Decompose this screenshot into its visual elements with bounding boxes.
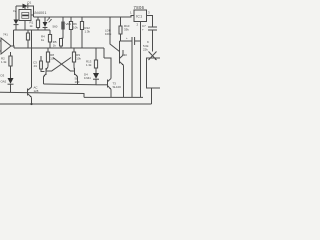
wire D1 to corner: [28, 6, 34, 17]
bottom bus: [0, 103, 152, 105]
wire top-left to D1: [16, 5, 23, 7]
wire left vertical: [15, 6, 17, 20]
svg-text:IC1: IC1: [136, 15, 142, 19]
cap C8: [132, 37, 135, 45]
svg-text:33k: 33k: [124, 28, 129, 32]
svg-text:1N4001: 1N4001: [33, 11, 47, 15]
svg-text:Fe: Fe: [13, 9, 17, 13]
emitter junction: [31, 98, 33, 105]
diode OA2: [8, 78, 14, 84]
node line y30: [14, 29, 51, 31]
cross wire A: [53, 58, 71, 72]
svg-text:SL100: SL100: [113, 85, 122, 89]
svg-text:10k: 10k: [76, 57, 81, 61]
svg-text:D1: D1: [28, 0, 32, 4]
LED D3: [44, 17, 46, 22]
cap C7: [148, 27, 157, 30]
resistor 1.3k: [10, 52, 12, 56]
gnd drop C8: [131, 45, 133, 98]
resistor R6: [70, 17, 72, 22]
svg-text:22k: 22k: [143, 48, 148, 52]
wire op-amp feed: [13, 30, 15, 46]
resistor R9: [73, 48, 75, 52]
wire T2 feed: [120, 41, 121, 57]
relay right pin wire: [31, 14, 34, 16]
transistor Q1: [45, 68, 47, 75]
IC1 gnd pin: [140, 22, 142, 98]
collector T3: [104, 48, 111, 79]
relay bottom wire: [24, 21, 26, 31]
relay RL1 box: [19, 10, 31, 21]
collector wire T1 up: [31, 30, 33, 87]
svg-text:1.3k: 1.3k: [1, 60, 7, 64]
diode D4: [93, 73, 99, 79]
preset VR1: [62, 17, 64, 22]
resistor R2: [37, 17, 39, 20]
svg-text:1k: 1k: [53, 44, 57, 48]
resistor R10: [120, 17, 122, 26]
meter M1 box: [147, 58, 162, 88]
diode D2: [14, 20, 19, 25]
resistor R13: [95, 48, 97, 60]
svg-text:1.3k: 1.3k: [85, 30, 91, 34]
transistor T3: [96, 84, 108, 86]
mid rail: [11, 46, 104, 48]
svg-text:VR1: VR1: [66, 22, 72, 26]
transistor T1: [27, 89, 29, 96]
svg-text:128: 128: [34, 89, 39, 93]
svg-text:10k: 10k: [73, 26, 78, 30]
LDR wire: [110, 17, 120, 52]
svg-text:1N41: 1N41: [84, 76, 91, 80]
svg-text:D3: D3: [1, 74, 5, 78]
resistor R12: [81, 17, 83, 22]
emitter rail mv: [44, 83, 97, 86]
cap C8 wire: [121, 40, 133, 42]
wire D2 down: [15, 25, 17, 30]
svg-text:330: 330: [122, 53, 127, 57]
resistor R1: [27, 30, 29, 33]
cap C3: [40, 56, 42, 61]
top bus: [34, 16, 135, 18]
svg-text:+: +: [142, 28, 144, 32]
transistor T2: [119, 57, 121, 64]
svg-text:100k: 100k: [105, 32, 112, 36]
svg-text:741: 741: [3, 33, 8, 37]
svg-text:1.3k: 1.3k: [86, 63, 92, 67]
wire meter to bus: [151, 88, 153, 104]
cross wire B: [51, 58, 71, 72]
meter needle X: [149, 52, 157, 61]
svg-text:7806: 7806: [134, 5, 145, 10]
emitter rail: [84, 96, 143, 98]
IC1 box: [134, 10, 147, 22]
svg-text:560: 560: [53, 25, 58, 29]
resistor R4: [49, 30, 51, 35]
svg-text:.01: .01: [33, 64, 37, 68]
base wire T1: [0, 92, 84, 97]
resistor R5: [60, 39, 63, 47]
op-amp U1: [1, 38, 11, 54]
svg-text:+: +: [126, 36, 128, 40]
svg-text:100: 100: [75, 80, 80, 84]
IC1 pins: [147, 16, 153, 28]
resistor R8: [47, 48, 49, 52]
transistor Q2: [74, 68, 76, 75]
svg-text:OA2: OA2: [1, 80, 7, 84]
svg-text:10k: 10k: [50, 57, 55, 61]
diode D1: [23, 4, 28, 9]
